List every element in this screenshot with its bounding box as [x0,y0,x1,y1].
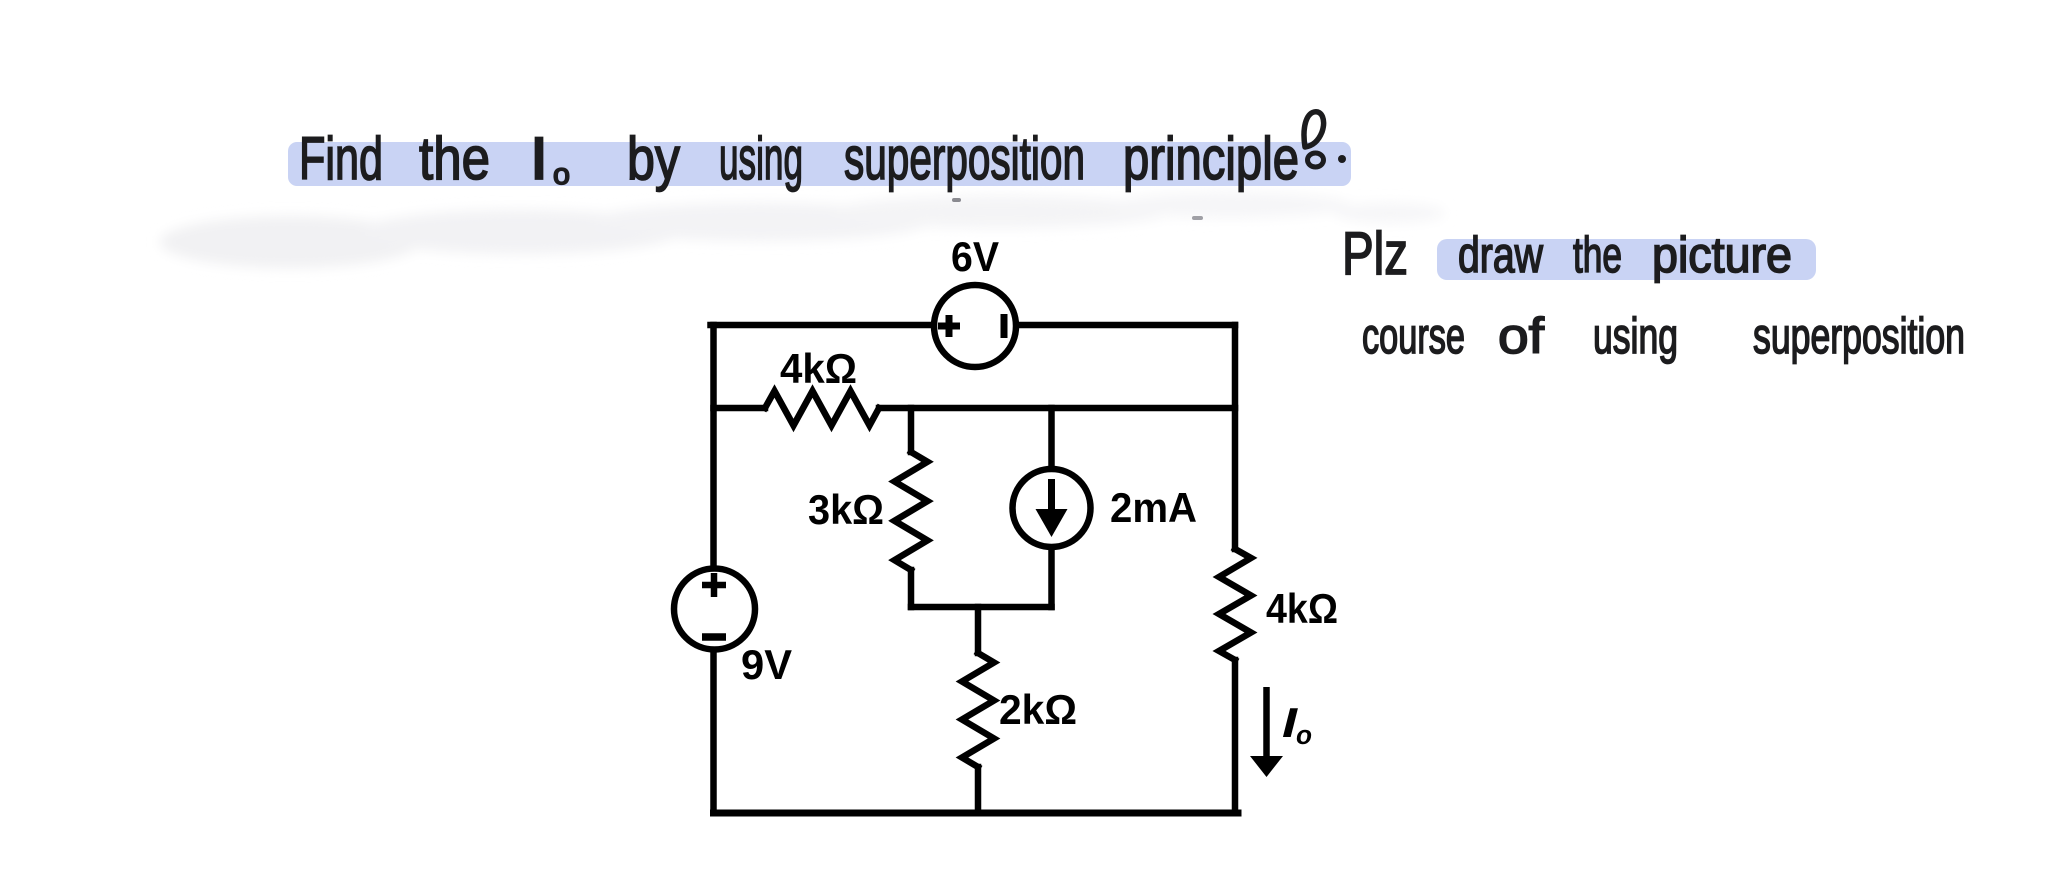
faint eraser smudge under title left [160,192,1445,268]
svg-text:I: I [529,125,549,192]
svg-text:o: o [553,158,570,191]
handwritten exclamation small o [1308,153,1324,167]
voltage source V2 plus sign [702,573,726,597]
wire: 2mA branch bottom [1048,546,1055,607]
wire: bottom horizontal [714,810,1239,817]
voltage source V1 minus bar [1001,314,1008,338]
svg-text:6V: 6V [951,233,999,280]
Io output arrow head [1250,756,1283,777]
svg-text:Plz: Plz [1342,220,1408,287]
svg-text:2kΩ: 2kΩ [999,686,1077,733]
svg-text:Find: Find [299,125,383,192]
Io output arrow shaft [1263,687,1270,758]
svg-text:principle: principle [1123,125,1299,192]
svg-text:course: course [1362,308,1465,364]
svg-text:superposition: superposition [844,125,1085,192]
resistor R 4kΩ top [765,391,879,426]
resistor right 4kΩ [1219,549,1251,660]
handwritten period [1338,155,1346,163]
voltage source V1 plus sign [938,315,960,337]
resistor 3kΩ [895,452,928,570]
svg-text:superposition: superposition [1753,308,1965,364]
svg-text:2mA: 2mA [1110,484,1197,531]
wire: right vertical upper [1232,325,1239,549]
voltage source V2 minus bar [702,633,726,641]
wire: left vertical [710,325,717,813]
svg-text:by: by [627,125,680,192]
handwritten exclamation mark loop [1304,112,1324,147]
wire: middle horizontal right span [879,405,1235,412]
svg-text:using: using [1593,308,1678,364]
current source I1 arrow [1048,479,1055,514]
current source I1 2mA circle [1013,469,1091,547]
svg-text:o: o [1296,720,1312,750]
tiny stray tick marks [952,198,961,202]
svg-text:draw: draw [1458,227,1544,283]
wire: 2k branch bottom [975,767,982,813]
resistor 2kΩ [962,653,994,767]
svg-text:9V: 9V [741,641,792,688]
svg-text:the: the [419,125,490,192]
svg-text:of: of [1498,308,1544,364]
wire: middle horizontal left stub [714,405,766,412]
wire: 2k branch top [975,607,982,653]
voltage source V2 9V circle [674,569,755,650]
svg-text:3kΩ: 3kΩ [808,486,884,533]
wire: 2mA branch top [1048,408,1055,470]
title highlight bar [288,142,1351,186]
svg-text:4kΩ: 4kΩ [780,345,857,392]
svg-text:the: the [1573,227,1622,283]
svg-text:4kΩ: 4kΩ [1266,585,1338,632]
note highlight bar [1437,239,1816,280]
svg-text:using: using [719,125,803,192]
voltage source V1 6V circle [934,285,1016,367]
wire: right vertical lower [1232,660,1239,813]
wire: inner connector horizontal [911,604,1052,611]
wire: top horizontal [711,322,1236,329]
wire: 3k branch bottom [908,570,915,607]
wire: 3k branch top [908,408,915,452]
svg-text:picture: picture [1652,227,1792,283]
